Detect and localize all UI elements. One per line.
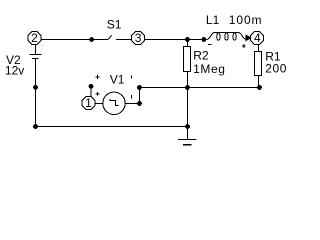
wire V1 right pin	[125, 103, 139, 105]
battery V2 long plate	[30, 54, 42, 56]
node 3 octagon	[132, 32, 145, 45]
wire node 4 bottom lead	[258, 45, 260, 52]
svg-text:4: 4	[254, 31, 261, 45]
wire switch to node 3	[116, 39, 132, 41]
svg-text:1Meg: 1Meg	[193, 62, 225, 76]
junction dot R2 bottom	[185, 85, 190, 90]
arrow head L1	[246, 35, 251, 40]
junction dot V1 right upper	[137, 85, 142, 90]
wire node 3 to inductor	[145, 39, 205, 41]
svg-text:1: 1	[85, 96, 92, 110]
ground bar 2	[183, 144, 191, 146]
node 2 octagon	[28, 32, 41, 45]
resistor R1 bottom lead	[258, 76, 260, 88]
svg-text:100m: 100m	[229, 13, 263, 27]
svg-text:V1: V1	[110, 73, 125, 87]
wire V1 right vertical	[139, 88, 141, 104]
wire node 2 bottom stub	[35, 45, 37, 55]
svg-text:S1: S1	[107, 17, 122, 31]
ground stem	[187, 127, 189, 140]
node 4 octagon	[251, 32, 264, 45]
svg-text:3: 3	[135, 31, 142, 45]
minus tick L1	[208, 44, 212, 46]
plus tick V1 upper	[96, 75, 100, 79]
battery V2 short plate	[32, 58, 39, 60]
resistor R2 body	[184, 47, 191, 72]
ground bar 1	[178, 139, 196, 141]
plus tick V1 lower	[96, 92, 100, 96]
junction dot top wire joint	[89, 37, 94, 42]
inductor loop 3	[233, 33, 236, 41]
wire V1 left pin	[95, 103, 103, 105]
minus tick V1 lower	[131, 95, 133, 99]
junction dot R2 top	[185, 37, 190, 42]
plus tick L1	[242, 44, 246, 48]
inductor L1 body	[204, 33, 246, 40]
source V1 waveform	[110, 99, 119, 105]
wire battery down to rail	[35, 59, 37, 127]
wire bottom rail	[36, 126, 188, 128]
minus tick V1 upper	[131, 75, 133, 78]
svg-text:2: 2	[31, 31, 38, 45]
resistor R2 top lead	[187, 40, 189, 47]
junction dot V2 branch	[33, 85, 38, 90]
inductor loop 2	[225, 33, 228, 41]
junction dot rail right	[185, 124, 190, 129]
junction dot node 1 stub	[89, 84, 94, 89]
junction dot V1 right pin	[137, 101, 142, 106]
inductor loop 1	[217, 33, 220, 41]
svg-text:L1: L1	[206, 13, 220, 27]
wire node 1 top stub	[90, 86, 92, 96]
junction dot R1 bottom	[257, 85, 262, 90]
junction dot L1 left	[201, 37, 206, 42]
wire mid horizontal	[140, 87, 260, 89]
wire top from node 2 to switch	[41, 39, 108, 41]
svg-text:R2: R2	[193, 49, 209, 63]
svg-text:12v: 12v	[5, 64, 24, 78]
junction dot rail left	[33, 124, 38, 129]
resistor R1 body	[255, 52, 262, 76]
svg-text:200: 200	[265, 62, 287, 76]
node 1 octagon	[82, 97, 95, 110]
switch S1 blade	[108, 35, 111, 39]
source V1 circle	[103, 92, 125, 114]
resistor R2 bottom lead	[187, 71, 189, 126]
